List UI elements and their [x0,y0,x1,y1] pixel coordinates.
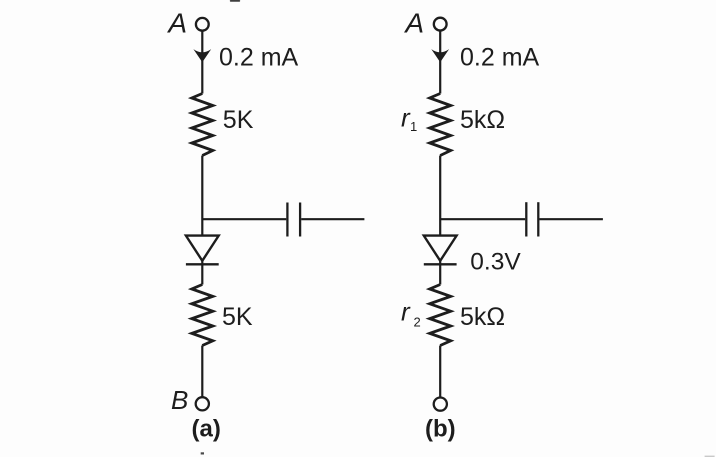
svg-text:(b): (b) [425,416,456,443]
svg-text:A: A [166,8,187,39]
svg-text:(a): (a) [192,416,221,443]
svg-text:1: 1 [410,119,417,134]
svg-text:5kΩ: 5kΩ [460,303,505,331]
svg-text:5K: 5K [222,303,253,331]
svg-text:5K: 5K [223,106,254,134]
svg-text:2: 2 [414,315,421,330]
svg-text:0.2 mA: 0.2 mA [460,44,540,72]
svg-text:0.2 mA: 0.2 mA [219,44,299,72]
svg-text:5kΩ: 5kΩ [460,106,505,134]
svg-text:A: A [403,8,424,39]
svg-text:B: B [171,385,188,415]
svg-text:r: r [401,296,411,326]
svg-text:0.3V: 0.3V [470,249,521,276]
